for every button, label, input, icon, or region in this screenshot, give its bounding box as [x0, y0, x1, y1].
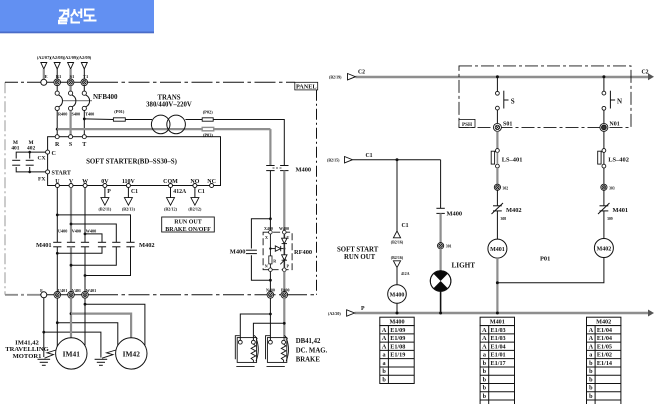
- svg-text:b: b: [483, 393, 487, 400]
- svg-text:E1/19: E1/19: [390, 352, 405, 359]
- coil M400: [388, 285, 407, 304]
- svg-text:BRAKE: BRAKE: [296, 357, 321, 364]
- wire to M402 NC: [496, 190, 498, 205]
- terminal 303: [601, 184, 607, 190]
- rectifier RF400 box: [263, 232, 292, 270]
- starter terminal START: [46, 170, 50, 174]
- wire U phase drop: [56, 188, 58, 243]
- RF400 terminal X: [269, 230, 273, 234]
- wire W401 to IM41: [84, 298, 86, 348]
- svg-text:M402: M402: [597, 246, 612, 252]
- svg-text:E1/03: E1/03: [491, 335, 506, 342]
- wire terminal to lamp (grey): [440, 249, 442, 271]
- svg-text:303: 303: [609, 186, 615, 190]
- limit switch LS-402: [598, 149, 606, 168]
- svg-text:PSH: PSH: [462, 122, 472, 128]
- incoming arrow S1: [68, 63, 74, 70]
- svg-text:TRANS: TRANS: [157, 95, 180, 102]
- wire S to NFB (grey): [69, 86, 71, 91]
- breaker NFB400 pole S: [69, 91, 76, 110]
- RF400 terminal N: [269, 268, 273, 272]
- svg-text:S: S: [511, 97, 515, 105]
- svg-text:M402: M402: [596, 319, 611, 326]
- wire C1 branch down: [396, 160, 398, 231]
- node W jumper bottom: [84, 274, 87, 277]
- arrow C1 in: [345, 157, 353, 163]
- svg-text:380/440V–220V: 380/440V–220V: [146, 102, 192, 109]
- svg-text:(B2/11): (B2/11): [99, 207, 112, 212]
- node M401-M402 join: [496, 281, 499, 284]
- node aux bottom: [28, 171, 31, 174]
- svg-text:M401: M401: [490, 319, 505, 326]
- contact M402 aux: [26, 160, 34, 165]
- svg-text:C1: C1: [366, 153, 373, 159]
- M400 contact linkage: [273, 167, 283, 169]
- wire N400 to brakes: [269, 298, 271, 340]
- svg-text:E: E: [44, 74, 47, 79]
- svg-text:A: A: [382, 335, 387, 342]
- title bar: [0, 0, 154, 33]
- node C2-S: [496, 75, 499, 78]
- node U jumper bottom: [56, 252, 59, 255]
- node R grey tap: [56, 128, 59, 131]
- wire E ground drop: [43, 298, 45, 357]
- fuse P02: [202, 118, 213, 121]
- node snubber bottom: [269, 279, 272, 282]
- terminal 302: [494, 184, 500, 190]
- svg-text:412A: 412A: [401, 272, 410, 276]
- node E jumper: [42, 331, 45, 334]
- svg-text:T1: T1: [83, 74, 89, 79]
- wire M402 contact 5 to V: [71, 247, 116, 265]
- terminal E bottom: [41, 292, 47, 298]
- PANEL label box: [295, 82, 318, 90]
- starter terminal R: [55, 135, 59, 139]
- node V jumper top: [70, 223, 73, 226]
- svg-text:M401: M401: [613, 207, 629, 214]
- aux contact rail top: [16, 152, 45, 158]
- wire P400 (grey): [283, 272, 285, 292]
- svg-text:C1: C1: [198, 189, 205, 195]
- breaker linkage: [62, 100, 92, 102]
- arrow 412A out: [167, 198, 175, 206]
- svg-text:IM42: IM42: [123, 349, 141, 358]
- wire transformer secondary top: [185, 119, 202, 121]
- svg-text:C1: C1: [402, 223, 409, 229]
- wire contact to terminal (grey): [440, 213, 442, 242]
- wire V401 to IM42 (grey): [71, 314, 131, 340]
- svg-text:M400: M400: [296, 167, 312, 174]
- terminal N400: [267, 292, 274, 299]
- wire N01 to LS-402: [603, 131, 605, 148]
- arrow C1 out: [124, 198, 132, 206]
- svg-text:M401: M401: [490, 247, 505, 253]
- starter bottom terminals U V W 0V 110V COM NO NC: [55, 179, 216, 185]
- node C1 branch: [396, 158, 399, 161]
- svg-text:309: 309: [607, 217, 613, 221]
- wire W below contact: [84, 247, 86, 292]
- wire U to M402 contact 6: [57, 215, 130, 242]
- panel boundary chain border bottom: [5, 294, 40, 296]
- brake DB42 terminals: [269, 340, 273, 344]
- wire lamp to P bus: [440, 291, 442, 313]
- wire secondary grey down to M400 contact (grey): [269, 129, 271, 165]
- svg-text:M400: M400: [390, 292, 405, 298]
- wire M402 coil to join: [497, 258, 604, 283]
- bus C2 end arrow: [648, 73, 654, 80]
- bus P end arrow: [648, 310, 654, 317]
- rectifier right leg (grey): [283, 234, 285, 268]
- wire NO to C1 arrow: [194, 188, 196, 198]
- contact M402 NC: [492, 203, 504, 214]
- pushbutton N: [602, 77, 622, 124]
- motor IM42: [116, 338, 147, 369]
- contact M401 NC: [598, 203, 610, 214]
- wire to M401 NC: [603, 190, 605, 205]
- wire T400: [83, 111, 85, 135]
- svg-text:E1/08: E1/08: [390, 343, 405, 350]
- wire R to NFB: [56, 86, 58, 91]
- terminal 301: [438, 243, 444, 249]
- svg-text:CX: CX: [38, 156, 46, 162]
- wire 110V to C1 arrow: [127, 188, 129, 198]
- brake DB42 coil: [281, 344, 286, 362]
- svg-text:N: N: [265, 264, 268, 269]
- wire to coil M400: [396, 268, 398, 285]
- svg-text:RF400: RF400: [294, 249, 312, 256]
- svg-text:(B2/15): (B2/15): [327, 158, 340, 163]
- PSH label box: [459, 119, 475, 128]
- svg-text:A: A: [482, 343, 487, 350]
- arrow C1 out 2: [191, 198, 199, 206]
- svg-text:LS–401: LS–401: [502, 157, 523, 164]
- svg-text:MOTOR1: MOTOR1: [13, 353, 42, 360]
- node aux top: [28, 151, 31, 154]
- terminal S01: [493, 123, 501, 131]
- transformer TRANS: [151, 115, 185, 134]
- wire T to NFB: [83, 86, 85, 91]
- title glyph 결: [59, 9, 68, 24]
- svg-text:V400: V400: [72, 228, 81, 233]
- wire U401 to IM41: [56, 298, 58, 348]
- ground IM42: [95, 359, 108, 365]
- svg-text:E1/03: E1/03: [491, 327, 506, 334]
- svg-text:U400: U400: [58, 228, 67, 233]
- diode upper right: [282, 234, 287, 249]
- wire M401 coil to P bus (grey): [496, 258, 498, 313]
- svg-text:(A2/09): (A2/09): [64, 55, 78, 60]
- node P-M400: [396, 312, 399, 315]
- wire V below contact (grey): [70, 247, 72, 292]
- svg-text:SOFT START: SOFT START: [337, 247, 379, 254]
- line C1: [353, 159, 441, 161]
- box PSH dashed: [459, 66, 631, 128]
- svg-text:C1: C1: [131, 189, 138, 195]
- svg-text:a: a: [383, 360, 386, 367]
- svg-text:b: b: [589, 360, 593, 367]
- svg-text:M401: M401: [36, 242, 52, 249]
- wire W to M402 contact 4: [85, 234, 102, 242]
- contact M400 NO: [436, 208, 444, 213]
- wire to coil M401: [496, 211, 498, 239]
- contactor M401 contacts: [53, 242, 89, 247]
- wire M402 contact 4 to U: [57, 247, 102, 254]
- svg-text:(B2/16): (B2/16): [391, 240, 404, 245]
- svg-text:C: C: [52, 151, 56, 157]
- svg-text:A: A: [589, 335, 594, 342]
- svg-text:START: START: [52, 171, 71, 177]
- svg-text:(B2/12): (B2/12): [164, 207, 178, 212]
- svg-text:(A2/09): (A2/09): [77, 55, 91, 60]
- box RUN OUT BRAKE ON/OFF: [162, 217, 215, 233]
- label DB41,42 DC. MAG. BRAKE: [296, 338, 328, 364]
- wire N400: [269, 272, 271, 292]
- svg-text:IM41: IM41: [63, 349, 81, 358]
- terminal table M402: [587, 317, 621, 404]
- wire COM to 412A arrow: [170, 188, 172, 198]
- svg-text:(P02): (P02): [203, 110, 214, 115]
- labels R S T: [55, 142, 86, 148]
- terminal labels E R1 S1 T1: [44, 74, 89, 79]
- node V jumper bottom: [70, 264, 73, 267]
- svg-text:E1/01: E1/01: [491, 352, 506, 359]
- svg-text:SOFT STARTER(BD–SS30–S): SOFT STARTER(BD–SS30–S): [86, 159, 177, 166]
- motor IM41: [56, 338, 87, 369]
- svg-text:E1/04: E1/04: [597, 327, 612, 334]
- svg-text:R1: R1: [56, 74, 62, 79]
- wire S1 drop (grey): [69, 69, 71, 79]
- svg-text:P: P: [361, 306, 365, 312]
- svg-text:b: b: [382, 376, 386, 383]
- svg-text:M402: M402: [506, 207, 522, 214]
- RF400 terminal U: [283, 230, 287, 234]
- svg-text:301: 301: [446, 245, 452, 249]
- terminal T1: [81, 79, 88, 86]
- incoming feeder labels (A2/07)(A2/08)(A2/09)(A2/09): [37, 55, 92, 60]
- svg-text:E1/09: E1/09: [390, 335, 405, 342]
- svg-text:RUN OUT: RUN OUT: [344, 254, 376, 261]
- terminal U401: [54, 292, 61, 299]
- diode lower right: [280, 249, 287, 268]
- svg-text:E1/17: E1/17: [491, 360, 506, 367]
- resistor R: [269, 256, 272, 264]
- wire W phase drop: [84, 188, 86, 243]
- svg-text:X400: X400: [264, 226, 273, 231]
- RF400 left leg: [269, 234, 271, 256]
- node P-lamp: [439, 312, 442, 315]
- terminal N01: [600, 123, 608, 131]
- wire W401 to IM42: [85, 304, 145, 348]
- wire P400 to brakes (grey): [283, 298, 285, 340]
- contactor M400 contact right: [280, 166, 288, 171]
- wire S400 (grey): [69, 111, 71, 135]
- panel boundary chain border right: [316, 90, 318, 295]
- labels E U401 V401 W401: [40, 288, 96, 293]
- wire M400 coil to P bus: [396, 303, 398, 313]
- svg-text:A: A: [482, 335, 487, 342]
- RF400 left leg 2: [269, 264, 271, 268]
- svg-text:T: T: [82, 142, 86, 148]
- breaker NFB400 pole R: [55, 91, 62, 110]
- svg-text:b: b: [483, 385, 487, 392]
- svg-text:T400: T400: [85, 112, 94, 117]
- svg-text:BRAKE ON/OFF: BRAKE ON/OFF: [165, 227, 211, 233]
- wire S01 to LS-401 (grey): [496, 131, 498, 148]
- svg-text:b: b: [589, 385, 593, 392]
- node U401 jumper: [56, 321, 59, 324]
- brake DB41 terminals: [238, 340, 242, 344]
- wire 0V to P arrow: [104, 188, 106, 198]
- svg-text:b: b: [589, 368, 593, 375]
- svg-text:b: b: [483, 368, 487, 375]
- wire grey 220V line through transformer (grey): [57, 128, 270, 130]
- wire snubber top: [251, 219, 270, 249]
- contactor M402 contacts: [98, 242, 135, 247]
- svg-text:(B2/12): (B2/12): [188, 207, 202, 212]
- brake DB41 coil: [251, 344, 256, 362]
- node RF right: [283, 247, 285, 249]
- wire V401 to IM41 (grey): [70, 298, 72, 340]
- IM42 frame bond: [102, 350, 116, 358]
- starter terminal C: [46, 150, 50, 154]
- svg-text:A: A: [589, 343, 594, 350]
- svg-text:E1/02: E1/02: [597, 352, 612, 359]
- arrow C2 in: [348, 74, 356, 80]
- labels R400 S400 T400: [58, 112, 94, 117]
- wire T1 drop: [83, 69, 85, 79]
- svg-text:M400: M400: [389, 319, 404, 326]
- wire V to M402 contact 5: [71, 224, 116, 242]
- wire N400 to left brake: [240, 314, 270, 340]
- fuse P01: [113, 118, 125, 121]
- terminal table M400: [380, 317, 414, 383]
- bus P (grey): [355, 312, 651, 314]
- wire to coil M402: [603, 211, 605, 239]
- svg-text:(A2/20): (A2/20): [328, 311, 341, 316]
- arrow C1 out up: [393, 231, 400, 238]
- node V401 jumper: [70, 312, 73, 315]
- wire fuse P01 to transformer: [125, 119, 152, 121]
- panel boundary chain border top: [5, 81, 40, 83]
- svg-text:a: a: [383, 352, 386, 359]
- fuse P03 (grey): [202, 127, 214, 130]
- ground IM41: [38, 359, 51, 365]
- svg-text:401: 401: [11, 146, 19, 152]
- contact M401 aux: [12, 160, 20, 165]
- title glyph 도: [84, 10, 97, 21]
- svg-text:E1/09: E1/09: [390, 327, 405, 334]
- wire LS-402 to terminal: [603, 168, 605, 184]
- svg-text:b: b: [483, 376, 487, 383]
- wire V phase drop (grey): [70, 188, 72, 243]
- svg-text:P: P: [107, 189, 111, 195]
- wire LS-401 to terminal (grey): [496, 168, 498, 184]
- svg-text:DC. MAG.: DC. MAG.: [296, 347, 328, 354]
- svg-text:402: 402: [27, 146, 35, 152]
- svg-text:M400: M400: [447, 210, 463, 217]
- svg-text:LIGHT: LIGHT: [452, 262, 476, 270]
- svg-text:LS–402: LS–402: [608, 157, 629, 164]
- svg-text:X: X: [265, 235, 268, 240]
- labels U400 V400 W400: [58, 228, 96, 233]
- bus C2 (grey): [356, 76, 652, 78]
- svg-text:S01: S01: [503, 122, 512, 128]
- svg-text:(B2/16): (B2/16): [391, 255, 404, 260]
- incoming arrow E: [41, 63, 47, 70]
- svg-text:A: A: [382, 327, 387, 334]
- panel boundary chain border left: [4, 82, 6, 294]
- svg-text:A: A: [589, 327, 594, 334]
- wire U below contact: [56, 247, 58, 292]
- svg-text:412A: 412A: [173, 189, 187, 195]
- svg-text:308: 308: [501, 217, 507, 221]
- labels X U N P inside: [265, 235, 290, 269]
- node C2-N: [602, 75, 605, 78]
- terminal V401: [68, 292, 75, 299]
- svg-text:(A2/07): (A2/07): [37, 55, 51, 60]
- svg-text:E1/14: E1/14: [597, 360, 612, 367]
- svg-text:R: R: [55, 142, 60, 148]
- label IM41,42 TRAVELLING MOTOR1: [5, 340, 48, 360]
- svg-text:b: b: [589, 376, 593, 383]
- terminal W401: [82, 292, 89, 299]
- wire M402 contact 6 to W: [85, 247, 131, 276]
- svg-text:C2: C2: [642, 70, 649, 76]
- svg-text:a: a: [589, 352, 592, 359]
- node snubber tap: [269, 217, 272, 220]
- svg-text:A: A: [382, 343, 387, 350]
- svg-text:NFB400: NFB400: [93, 93, 118, 101]
- node W jumper top: [84, 233, 87, 236]
- RF400 terminal P: [283, 268, 287, 272]
- soft starter box: [48, 137, 221, 186]
- IM41 frame bond: [45, 350, 57, 358]
- coil M401: [488, 239, 507, 258]
- brake DB42 inner frame: [267, 338, 286, 363]
- wire X400: [269, 171, 271, 231]
- incoming arrow T1: [81, 63, 87, 70]
- wire U401 to IM42: [57, 323, 118, 349]
- starter terminal T: [82, 135, 86, 139]
- arrow 412A in: [393, 261, 400, 268]
- lamp LIGHT: [430, 271, 451, 292]
- limit switch LS-401: [491, 149, 499, 168]
- svg-text:PANEL: PANEL: [296, 84, 317, 91]
- svg-text:b: b: [483, 360, 487, 367]
- wire W400 to rectifier (grey): [283, 171, 285, 231]
- svg-text:E1/05: E1/05: [597, 343, 612, 350]
- terminal P400: [281, 292, 288, 299]
- wire P400 to left brake: [253, 323, 284, 340]
- svg-text:b: b: [589, 393, 593, 400]
- brake DB41 inner frame: [237, 338, 256, 363]
- starter terminal S: [69, 135, 73, 139]
- terminal E: [41, 79, 47, 85]
- svg-text:DB41,42: DB41,42: [296, 338, 321, 345]
- coil M402: [594, 239, 613, 258]
- wire T to fuse P01: [84, 118, 113, 121]
- node P400 branch: [283, 322, 286, 325]
- brake DB41 outer bracket: [235, 335, 258, 366]
- node T fuse branch: [83, 118, 86, 121]
- label SOFT START RUN OUT: [337, 247, 379, 261]
- contactor M400 contact left (grey wire): [266, 166, 274, 171]
- pushbutton S: [496, 77, 515, 124]
- node U jumper top: [56, 214, 59, 217]
- aux branch M402: [29, 152, 31, 158]
- svg-text:a: a: [483, 352, 486, 359]
- svg-text:(P01): (P01): [114, 109, 125, 114]
